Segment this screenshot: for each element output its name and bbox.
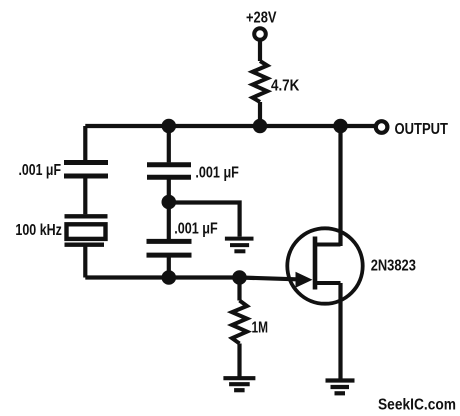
ground G2	[223, 378, 255, 390]
svg-text:.001 μF: .001 μF	[19, 162, 62, 179]
svg-text:100 kHz: 100 kHz	[15, 222, 62, 239]
node junction bottom-left	[162, 270, 177, 285]
wire supply to resistor	[258, 39, 262, 61]
capacitor C3 .001 uF	[147, 241, 192, 255]
capacitor C2 .001 uF	[147, 165, 191, 177]
svg-text:SeekIC.com: SeekIC.com	[378, 397, 456, 414]
wire left branch upper	[83, 126, 87, 160]
transistor Q1 2N3823	[287, 228, 362, 303]
node junction top-left	[162, 119, 177, 134]
capacitor C1 .001 uF	[64, 163, 108, 177]
svg-text:4.7K: 4.7K	[271, 78, 300, 95]
svg-text:.001 μF: .001 μF	[174, 221, 218, 238]
wire top rail	[85, 124, 376, 128]
svg-text:+28V: +28V	[246, 10, 277, 27]
terminal OUTPUT	[376, 121, 388, 133]
resistor R2 1M	[232, 301, 247, 344]
wire C3 to bottom rail	[167, 257, 171, 278]
wire middle branch upper	[167, 126, 171, 162]
node junction between C2 C3	[162, 195, 177, 210]
resistor R1 4.7K	[253, 61, 268, 102]
wire 1M to ground G2	[237, 344, 241, 377]
svg-text:OUTPUT: OUTPUT	[395, 121, 449, 138]
svg-text:.001 μF: .001 μF	[195, 165, 239, 182]
ground G1	[225, 239, 254, 252]
wire drain to top rail	[338, 126, 342, 246]
node junction drain-rail	[333, 119, 348, 134]
wire C1 to crystal	[83, 178, 87, 214]
wire resistor to top rail	[258, 102, 262, 126]
ground G3	[326, 381, 355, 394]
terminal +28V	[254, 28, 266, 40]
node junction resistor-rail	[253, 119, 268, 134]
wire source to ground G3	[338, 283, 342, 379]
svg-text:1M: 1M	[252, 319, 269, 336]
wire middle branch center	[167, 179, 171, 239]
crystal Y1 100 kHz	[65, 216, 108, 244]
node junction gate-1M	[232, 270, 247, 285]
wire gate junction to resistor 1M	[237, 278, 241, 301]
wire junction to ground G1	[169, 203, 240, 237]
svg-text:2N3823: 2N3823	[371, 258, 416, 275]
wire crystal to bottom rail	[83, 247, 87, 278]
wire bottom rail	[85, 278, 296, 280]
